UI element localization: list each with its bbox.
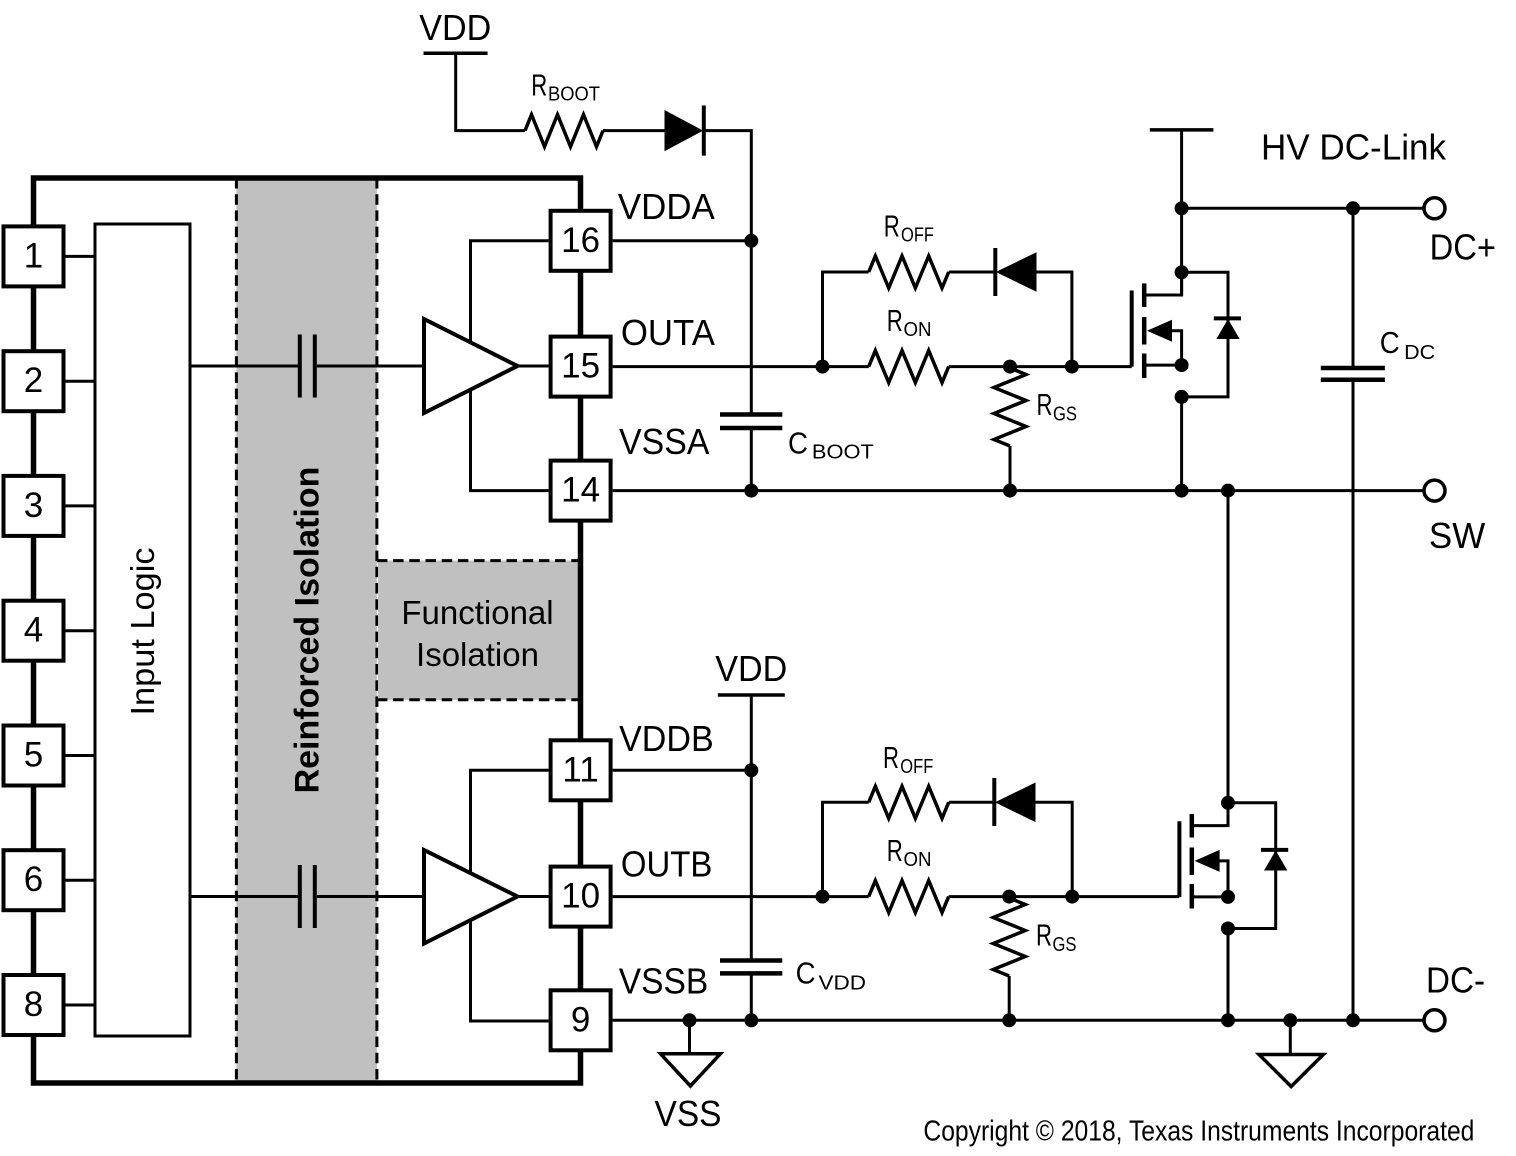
input logic block	[95, 224, 190, 1036]
svg-text:2: 2	[24, 361, 43, 400]
VDD supply symbol (top)	[424, 52, 488, 56]
wire diode to VDDA rail	[704, 131, 752, 241]
node VDDB junction	[744, 763, 758, 777]
svg-text:Copyright © 2018, Texas Instru: Copyright © 2018, Texas Instruments Inco…	[923, 1116, 1474, 1148]
node DOFF B branch junction	[1065, 890, 1079, 904]
pin 6	[4, 850, 64, 910]
node DC- CDC junction	[1346, 1013, 1360, 1027]
wire RGS B to VSSB line	[1008, 976, 1011, 1020]
svg-text:OFF: OFF	[901, 223, 934, 246]
transistor Q1 drain lead	[1144, 272, 1181, 295]
svg-text:DC: DC	[1404, 341, 1435, 364]
pin 14	[551, 461, 611, 521]
wire pin 1 to input logic	[64, 255, 96, 258]
wire driver B output to pin 10	[518, 895, 549, 898]
svg-text:1: 1	[24, 236, 43, 275]
wire input logic to isolation cap A	[190, 365, 298, 368]
wire pin 5 to input logic	[64, 754, 96, 757]
svg-text:4: 4	[24, 611, 43, 650]
ground VSS	[661, 1054, 721, 1086]
diode DOFF A	[993, 248, 997, 296]
terminal DC-	[1424, 1010, 1445, 1031]
svg-text:R: R	[883, 740, 899, 775]
wire VDDA rail to CBOOT	[750, 241, 753, 415]
wire CDC rail upper	[1352, 208, 1355, 368]
node Q1 source junction	[1175, 358, 1189, 372]
resistor ROFF A	[869, 256, 949, 288]
driver buffer B	[424, 850, 518, 944]
wire VSS ground stub	[688, 1020, 691, 1054]
wire pin 4 to input logic	[64, 629, 96, 632]
transistor Q2 body arrow	[1195, 850, 1220, 872]
pin 15	[551, 337, 611, 397]
svg-text:Input Logic: Input Logic	[124, 548, 161, 716]
wire CBOOT to VSSA line	[750, 428, 753, 491]
wire pin 6 to input logic	[64, 879, 96, 882]
node RGS A bottom junction	[1003, 484, 1017, 498]
node CBOOT-VSSA junction	[744, 484, 758, 498]
svg-text:C: C	[1380, 325, 1400, 360]
transistor Q1 body arrow	[1147, 320, 1172, 342]
functional isolation region (gray box)	[378, 561, 578, 700]
pin 4	[4, 601, 64, 661]
svg-text:VDD: VDD	[819, 972, 867, 995]
resistor RON B	[869, 881, 949, 913]
svg-text:R: R	[884, 208, 900, 243]
terminal DC+	[1424, 198, 1445, 219]
pin 3	[4, 476, 64, 536]
svg-text:VSSA: VSSA	[619, 421, 709, 462]
svg-text:OFF: OFF	[900, 755, 933, 778]
VDD supply symbol (bottom)	[718, 693, 785, 697]
wire ROFF branch up A	[823, 272, 869, 367]
svg-text:R: R	[887, 833, 903, 868]
svg-text:6: 6	[24, 860, 43, 899]
wire DC+ to Q1 drain	[1180, 208, 1183, 295]
wire ROFF A to diode	[949, 271, 995, 274]
reinforced isolation right dashed boundary	[375, 178, 378, 1083]
svg-text:8: 8	[24, 985, 43, 1024]
node RGS B top junction	[1002, 890, 1016, 904]
node Q2 drain-diode junction	[1221, 796, 1235, 810]
wire driver A supply bracket (pin16 to pin14)	[471, 241, 549, 491]
transistor Q2 source lead	[1192, 895, 1228, 898]
pin 2	[4, 351, 64, 411]
svg-text:VDDB: VDDB	[619, 718, 714, 759]
svg-text:GS: GS	[1053, 933, 1077, 956]
wire DOFF A to OUTA line	[1036, 272, 1072, 367]
wire Q1 source to SW	[1180, 397, 1183, 491]
wire isolation cap A to driver A	[317, 365, 425, 368]
wire pin 9 VSSB / DC- line	[613, 1019, 1424, 1022]
svg-text:3: 3	[24, 486, 43, 525]
IC reinforced isolation barrier (gray band)	[236, 180, 377, 1081]
wire pin 3 to input logic	[64, 504, 96, 507]
svg-text:BOOT: BOOT	[812, 440, 875, 463]
node DC- ground junction	[1283, 1013, 1297, 1027]
wire HV bar to DC+ line	[1180, 130, 1183, 208]
svg-text:ON: ON	[904, 848, 932, 871]
node DOFF A branch junction	[1065, 360, 1079, 374]
svg-text:R: R	[1036, 918, 1052, 953]
wire DOFF B to OUTB line	[1035, 802, 1072, 896]
wire ROFF B to diode	[949, 801, 995, 804]
ground power	[1259, 1055, 1323, 1087]
svg-text:BOOT: BOOT	[548, 83, 600, 106]
wire RON B to gate Q2	[949, 895, 1180, 898]
wire DC+ line	[1182, 207, 1424, 210]
body diode Q2	[1261, 848, 1288, 852]
functional isolation bottom dashed boundary	[377, 698, 578, 701]
svg-text:SW: SW	[1429, 515, 1485, 556]
wire pin 10 OUTB	[613, 895, 869, 898]
svg-text:VDD: VDD	[419, 7, 491, 48]
wire RON A to gate Q1	[949, 365, 1132, 368]
svg-text:10: 10	[561, 877, 600, 916]
reinforced isolation left dashed boundary	[235, 178, 238, 1083]
wire input logic to isolation cap B	[190, 895, 298, 898]
diode DOFF B	[992, 778, 996, 826]
resistor ROFF B	[869, 786, 949, 818]
svg-text:11: 11	[562, 750, 598, 789]
wire driver A output to pin 15	[518, 365, 549, 368]
wire pin 11 VDDB	[613, 769, 752, 772]
transistor Q2 gate bar	[1177, 821, 1181, 897]
svg-text:GS: GS	[1053, 403, 1077, 426]
svg-text:R: R	[887, 303, 903, 338]
svg-text:C: C	[796, 956, 816, 991]
wire VDD rail to VDDB	[750, 695, 753, 961]
transistor Q1 gate bar	[1130, 291, 1134, 367]
body diode Q1	[1214, 316, 1241, 320]
svg-text:9: 9	[571, 1000, 590, 1039]
pin 5	[4, 726, 64, 786]
svg-text:DC-: DC-	[1426, 960, 1485, 1001]
wire pin 14 VSSA / SW line	[613, 489, 1424, 492]
resistor RBOOT	[525, 115, 603, 147]
node Q2 source junction	[1221, 890, 1235, 904]
svg-text:5: 5	[24, 736, 43, 775]
isolation capacitor B	[298, 865, 302, 928]
wire Q1 body diode branch	[1182, 272, 1228, 397]
svg-text:R: R	[1037, 387, 1053, 422]
node Q1 diode return junction	[1175, 390, 1189, 404]
svg-text:C: C	[788, 425, 808, 460]
svg-text:Isolation: Isolation	[416, 636, 539, 673]
resistor RGS B	[993, 898, 1025, 976]
svg-text:16: 16	[561, 221, 600, 260]
svg-text:Reinforced Isolation: Reinforced Isolation	[289, 467, 327, 794]
HV DC-Link supply bar	[1150, 128, 1214, 132]
capacitor CBOOT	[720, 412, 782, 417]
node Q1 drain-diode junction	[1175, 265, 1189, 279]
isolation capacitor A	[298, 335, 302, 398]
wire SW to Q2 drain	[1227, 491, 1230, 803]
wire driver B supply bracket (pin11 to pin9)	[471, 770, 549, 1021]
wire CDC rail lower	[1352, 380, 1355, 1021]
transistor Q2 channel	[1190, 814, 1195, 838]
capacitor CDC	[1321, 366, 1385, 371]
node DC+ drain junction	[1175, 201, 1189, 215]
wire pin 16 VDDA	[613, 239, 752, 242]
node DC- Q2 junction	[1221, 1013, 1235, 1027]
wire RGS A to VSSA line	[1009, 446, 1012, 491]
pin 9	[551, 990, 611, 1050]
resistor RON A	[869, 351, 949, 383]
node RGS A top junction	[1003, 360, 1017, 374]
svg-text:VSS: VSS	[655, 1093, 722, 1134]
svg-text:ON: ON	[904, 318, 932, 341]
capacitor CVDD	[720, 958, 782, 963]
svg-text:VDD: VDD	[715, 648, 787, 689]
IC U1 outline	[34, 178, 581, 1083]
wire isolation cap B to driver B	[317, 895, 425, 898]
wire Q2 source to DC- line	[1227, 929, 1230, 1021]
bootstrap diode DBOOT	[665, 111, 702, 151]
svg-text:VDDA: VDDA	[618, 186, 715, 227]
node DC+ CDC junction	[1346, 201, 1360, 215]
node CVDD-VSSB junction	[744, 1013, 758, 1027]
pin 11	[551, 740, 611, 800]
node Q2 diode return junction	[1221, 922, 1235, 936]
node SW Q1 junction	[1175, 484, 1189, 498]
wire VDD down	[456, 53, 525, 130]
transistor Q1 source lead	[1144, 364, 1181, 367]
node OUTA ROFF branch junction	[816, 360, 830, 374]
svg-text:14: 14	[561, 471, 600, 510]
wire pin 8 to input logic	[64, 1004, 96, 1007]
pin 16	[551, 211, 611, 271]
svg-text:HV DC-Link: HV DC-Link	[1261, 127, 1447, 168]
svg-text:VSSB: VSSB	[619, 960, 709, 1001]
wire Q2 body diode branch	[1228, 803, 1276, 929]
pin 1	[4, 226, 64, 286]
pin 8	[4, 975, 64, 1035]
svg-text:OUTA: OUTA	[621, 312, 715, 353]
node VSS ground junction	[683, 1013, 697, 1027]
wire ROFF branch up B	[823, 802, 869, 896]
wire RBOOT to diode	[603, 129, 666, 132]
transistor Q2 drain lead	[1192, 803, 1228, 826]
svg-text:DC+: DC+	[1430, 226, 1496, 267]
wire power ground stub	[1289, 1020, 1292, 1055]
terminal SW	[1424, 480, 1445, 501]
node SW Q2 drain junction	[1221, 484, 1235, 498]
node OUTB ROFF branch junction	[816, 890, 830, 904]
wire pin 2 to input logic	[64, 380, 96, 383]
wire pin 15 OUTA	[613, 365, 869, 368]
svg-text:OUTB: OUTB	[621, 843, 713, 884]
svg-text:Functional: Functional	[401, 594, 553, 631]
svg-text:R: R	[531, 68, 547, 103]
functional isolation top dashed boundary	[377, 559, 578, 562]
resistor RGS A	[994, 368, 1026, 446]
svg-text:15: 15	[561, 347, 600, 386]
node RGS B bottom junction	[1002, 1013, 1016, 1027]
wire CVDD to VSSB line	[750, 973, 753, 1020]
transistor Q1 channel	[1142, 283, 1147, 307]
driver buffer A	[424, 319, 518, 413]
pin 10	[551, 867, 611, 927]
node VDDA junction	[744, 234, 758, 248]
